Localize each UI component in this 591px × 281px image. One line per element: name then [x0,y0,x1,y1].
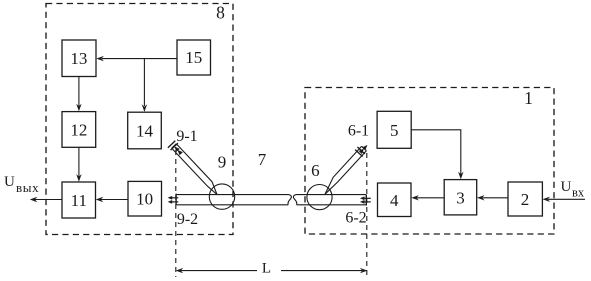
block 12 [62,112,96,148]
svg-text:14: 14 [136,122,154,141]
dimension line L right segment [281,270,362,272]
probe 6-1 tip arrowheads [362,145,367,151]
arrowhead into 14 [142,104,147,112]
svg-text:7: 7 [258,150,267,169]
arrowhead into 12 [76,104,81,112]
dimension line L left segment [181,270,257,272]
cable break right squiggle [293,195,296,205]
arrowhead L left [176,268,184,273]
svg-text:6-2: 6-2 [345,210,366,227]
svg-text:15: 15 [185,48,202,67]
wire 5 to 3 (corner) [411,130,461,174]
probe 6-1 tip slash marks [357,147,365,154]
block 5 [377,111,411,148]
probe 9-1 lower outline [172,148,217,194]
svg-text:6-1: 6-1 [348,123,369,140]
probe 9-1 tip cap [172,144,177,148]
svg-text:9-1: 9-1 [176,128,197,145]
svg-text:1: 1 [524,88,533,108]
cable break left squiggle [288,195,291,205]
arrowhead L right [360,268,368,273]
transformer circle 9 [209,184,234,209]
arrowhead into 11 from 10 [96,197,104,202]
wire 10 to 11 [101,199,128,201]
cable 6-2 end arrow shafts [362,197,371,199]
label U_vyh (output voltage) [4,174,39,195]
wire 12 to 11 [78,147,80,176]
dimension extension line left [175,150,177,277]
wire 3 to 4 [417,197,445,199]
wire input to 2 [548,198,585,200]
wire cable 7 top line left part [176,194,289,196]
label U_vh (input voltage) [561,179,585,200]
arrowhead into 4 [411,195,419,200]
svg-text:10: 10 [136,190,153,209]
dashed box 1 (sensor unit) [305,88,554,235]
transformer circle 6 [307,185,332,210]
wire 13 to 12 [78,77,80,107]
dashed box 8 (converter unit) [46,4,233,235]
cable 9-2 end arrowheads [168,196,173,200]
arrowhead into 3 from 2 [477,195,485,200]
arrowhead output Uvyh [30,197,38,202]
probe 9-1 upper outline [176,144,217,195]
probe 6-1 tip cap [362,146,367,150]
svg-text:U: U [561,179,572,195]
block 4 [378,183,412,217]
wire branch down to 14 [143,59,145,106]
wire cable 7 bottom line right part [297,204,367,206]
probe 6-1 lower outline [325,151,366,195]
wire 15 to 13 [102,58,177,60]
cable 9-2 end arrow shafts [170,197,178,199]
block 10 [128,181,162,216]
block 3 [444,180,477,215]
wire cable 7 bottom line left part [176,204,288,206]
wire cable 7 top line right part [296,194,367,196]
wire 2 to 3 [483,197,509,199]
svg-text:9: 9 [218,153,227,172]
cable 6-2 end bar [365,195,367,206]
svg-text:9-2: 9-2 [177,211,198,228]
wire 11 to output [35,199,62,201]
probe 9-1 tip slash marks [171,143,178,150]
svg-text:4: 4 [390,191,399,210]
block 2 [508,182,542,216]
svg-text:вых: вых [16,180,39,195]
svg-text:3: 3 [456,188,465,207]
block 13 [62,40,96,77]
arrowhead into 13 [96,56,104,61]
svg-text:11: 11 [71,191,87,210]
block 14 [128,112,162,149]
probe 6-1 upper outline [325,146,362,194]
dimension extension line right [366,153,368,277]
svg-text:5: 5 [390,121,399,140]
probe 9-1 tip arrowheads [174,146,179,152]
cable 6-2 end arrowheads [360,196,365,200]
svg-text:6: 6 [311,161,320,180]
svg-text:L: L [262,261,271,277]
cable 9-2 end bar [175,194,177,205]
svg-text:вх: вх [572,186,585,200]
arrowhead into 11 from 12 [76,174,81,182]
svg-text:U: U [4,174,15,190]
arrowhead into 3 from 5 [458,172,463,180]
arrowhead into 2 (input) [543,197,551,202]
svg-text:2: 2 [521,190,530,209]
svg-text:8: 8 [216,3,225,23]
svg-text:13: 13 [70,49,87,68]
svg-text:12: 12 [70,121,87,140]
block 11 [62,182,96,218]
block 15 [177,40,211,75]
